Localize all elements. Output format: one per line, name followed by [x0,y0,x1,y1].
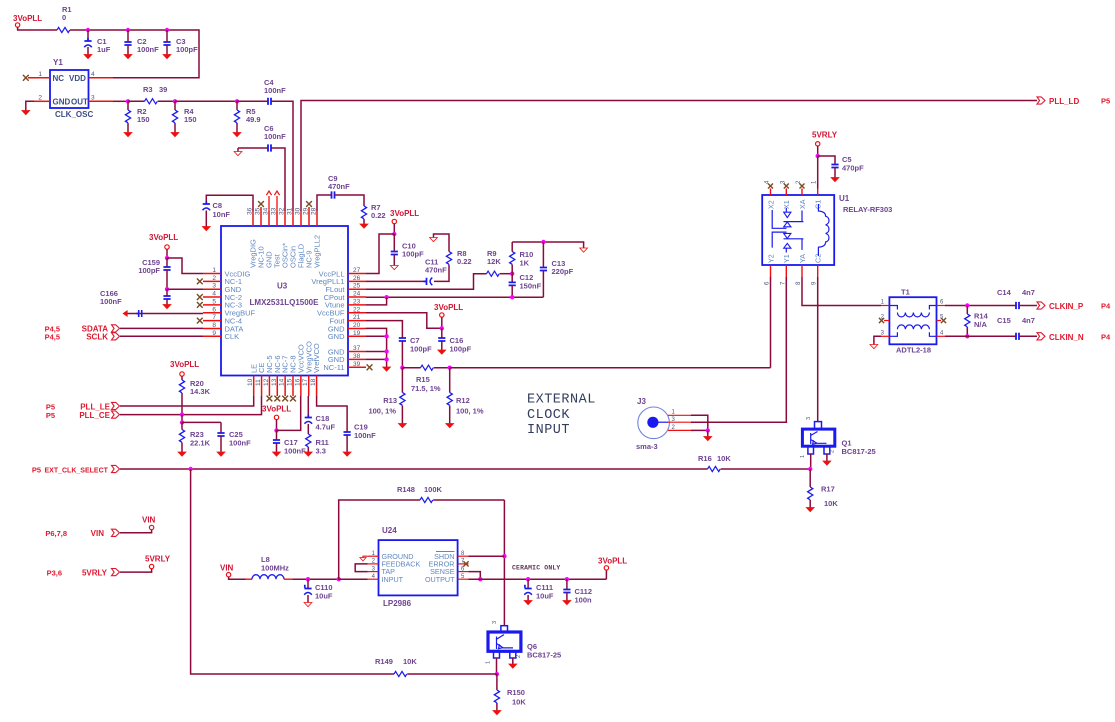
wire T1 pin4 to CLKIN_N [945,335,1016,337]
svg-text:150nF: 150nF [520,282,542,291]
svg-text:6: 6 [212,306,216,313]
svg-text:YA: YA [798,254,807,263]
capacitor C16 [441,328,443,338]
resistor R13 [401,368,403,393]
svg-text:CLK: CLK [225,332,240,341]
svg-text:X2: X2 [766,200,775,209]
resistor R8 [446,252,451,265]
wire GND pins 20 19 37 38 rail [366,328,387,367]
pin 4 INPUT of U24 [368,578,379,580]
no-connect X pin 35 [260,207,262,211]
svg-text:16: 16 [294,378,301,386]
svg-text:39: 39 [353,361,361,368]
svg-text:10uF: 10uF [536,592,554,601]
capacitor C2 [127,30,129,42]
svg-text:GND: GND [328,332,345,341]
svg-text:14.3K: 14.3K [190,387,211,396]
svg-text:5VRLY: 5VRLY [82,568,108,577]
pin 3 X1 of U1 [785,189,787,196]
svg-text:3VoPLL: 3VoPLL [390,209,419,218]
pin 37 GND of U3 [348,351,366,353]
svg-text:100, 1%: 100, 1% [456,407,484,416]
svg-text:71.5, 1%: 71.5, 1% [411,384,441,393]
no-connect X on ERROR pin 7 [463,561,468,566]
svg-text:sma-3: sma-3 [636,442,658,451]
wire matching line to relay Y2 [450,367,771,369]
svg-text:28: 28 [311,207,318,215]
svg-text:OUTPUT: OUTPUT [425,575,455,584]
svg-text:23: 23 [353,298,361,305]
svg-text:1: 1 [486,661,492,664]
wire SHDN to R148 vertical [469,555,505,557]
pin 19 GND of U3 [348,335,366,337]
svg-text:470pF: 470pF [842,164,864,173]
pin 7 ERROR of U24 [458,563,469,565]
svg-text:1: 1 [212,267,216,274]
svg-text:3.3: 3.3 [316,447,326,456]
pin 5 NC-3 of U3 [203,304,221,306]
wire J3 shield pins to ground [691,415,708,430]
pin 4 NC-2 of U3 [203,296,221,298]
pin 6 of T1 [937,305,946,307]
pin 1 of T1 [881,305,889,307]
resistor R12 [449,368,451,393]
svg-text:R17: R17 [821,485,835,494]
pin 1 of J3 [668,414,691,416]
svg-text:PLL_LD: PLL_LD [1049,97,1079,106]
pin 6 VregBUF of U3 [203,312,221,314]
wire EXT_CLK_SELECT to R16 [120,468,708,470]
svg-text:Y1: Y1 [53,58,63,67]
svg-text:1K: 1K [520,259,530,268]
wire FlagLD pin30 to PLL_LD port [301,101,1037,212]
port CLKIN_P [1037,302,1045,309]
capacitor C17 [276,430,278,440]
svg-text:10nF: 10nF [213,210,231,219]
svg-text:0.22: 0.22 [371,211,386,220]
pin 32 OSCin* of U3 [284,211,286,226]
resistor R149 [394,671,407,676]
svg-text:37: 37 [353,345,361,352]
svg-text:CLKIN_N: CLKIN_N [1049,333,1084,342]
terminal VIN [149,525,153,529]
wire SENSE to OUTPUT [469,572,481,580]
pin 39 NC-11 of U3 [348,366,366,368]
pin 11 CE of U3 [261,376,263,397]
svg-text:30: 30 [295,207,302,215]
svg-text:Y2: Y2 [766,254,775,263]
pin 16 VccVCO of U3 [300,376,302,397]
svg-text:13: 13 [271,378,278,386]
capacitor C112 [566,579,568,589]
node junction C5 [816,154,820,158]
svg-text:U24: U24 [382,526,397,535]
svg-text:Y1: Y1 [782,254,791,263]
ground arrow on U24 pin 1 [363,556,368,558]
no-connect X pins 12-15 [267,396,273,402]
svg-text:36: 36 [247,207,254,215]
pin 35 NC-10 of U3 [260,211,262,226]
svg-text:11: 11 [255,379,262,386]
svg-text:PLL_CE: PLL_CE [79,411,110,420]
svg-text:RELAY-RF303: RELAY-RF303 [843,205,892,214]
wire relay YA to T1 pin1 [802,277,881,306]
pin 31 OSCin of U3 [292,211,294,226]
svg-text:0.22: 0.22 [457,257,472,266]
node junction R148 left [337,577,341,581]
svg-text:26: 26 [353,275,361,282]
pin 7 Y1 of U1 [785,265,787,277]
capacitor C9 and resistor R7 on VregPLL2 pin 28 [317,195,332,211]
wire R10/C13 top to ground [512,242,583,248]
capacitor on VregBUF pin 6 with off-page arrow [127,313,203,315]
resistor R4 [174,101,176,110]
svg-text:10uF: 10uF [315,592,333,601]
svg-text:9: 9 [212,330,216,337]
resistor R10 [511,242,513,252]
svg-text:3: 3 [806,417,812,420]
wire R148 right to SHDN and Q6 collector [503,500,505,626]
svg-text:100nF: 100nF [354,431,376,440]
svg-text:P4,5: P4,5 [45,332,60,341]
resistor R14 [966,306,968,315]
wire C6 to OSCin* pin 32 [271,148,285,211]
resistor R9 [487,271,500,276]
wire FEEDBACK-TAP bracket [355,564,368,572]
svg-text:150: 150 [137,115,150,124]
pin 6 SENSE of U24 [458,571,469,573]
svg-text:INPUT: INPUT [382,575,404,584]
resistor R148 feedback [339,500,420,579]
svg-text:R150: R150 [507,688,525,697]
pin 2 NC-1 of U3 [203,280,221,282]
capacitor C110 [307,579,309,588]
node junction C110 [306,577,310,581]
svg-text:VIN: VIN [142,516,156,525]
capacitor C13 [542,242,544,268]
svg-text:20: 20 [353,322,361,329]
svg-text:220pF: 220pF [552,267,574,276]
svg-text:10: 10 [247,378,254,386]
wire relay Y2 to matching line [770,277,772,368]
svg-text:R149: R149 [375,657,393,666]
svg-text:100, 1%: 100, 1% [368,407,396,416]
power arrow pin 34 [268,196,270,211]
svg-text:GND: GND [53,98,71,107]
svg-text:P5: P5 [46,411,55,420]
svg-text:CERAMIC ONLY: CERAMIC ONLY [512,565,560,572]
node junction R23 [181,415,183,423]
transformer T1 ADTL2-18 [889,297,936,344]
svg-text:NC-11: NC-11 [323,363,344,372]
pin 1 VccDIG of U3 [203,273,221,275]
wire 5VRLY port to terminal [120,569,152,572]
wire OUTPUT rail [469,578,607,580]
pin 3 of T1 to ground [881,335,889,337]
pin 2 of J3 [668,429,691,431]
svg-text:100nF: 100nF [100,297,122,306]
node junction C13 top [541,240,545,244]
wire Fout pin 21 through C7 [366,321,402,338]
svg-text:1: 1 [800,455,806,458]
inductor L8 [252,575,284,579]
node junction C1 [86,28,90,32]
svg-text:100pF: 100pF [176,45,198,54]
capacitor C159 [166,258,168,267]
capacitor C10 [393,234,395,252]
wire OUT net [113,100,128,102]
pin 6 Y2 of U1 [770,265,772,277]
capacitor C6 on OSCin* with ground stub [237,148,239,152]
wire R1 to Y1 VDD rail [70,30,199,78]
svg-text:VDD: VDD [69,74,86,83]
svg-text:100pF: 100pF [450,345,472,354]
pin 3 of J3 [658,421,668,423]
svg-text:J3: J3 [637,397,646,406]
pin 9 C2 of U1 [817,265,819,277]
resistor R7 [361,206,366,219]
svg-text:3VoPLL: 3VoPLL [598,557,627,566]
pin 2 XA of U1 [801,189,803,196]
pin 38 GND of U3 [348,358,366,360]
svg-text:4n7: 4n7 [1022,316,1035,325]
capacitor C5 [818,156,835,165]
node junction C3 [165,28,169,32]
pin 8 YA of U1 [801,265,803,277]
pin 4 X2 of U1 [770,189,772,196]
svg-text:R13: R13 [383,396,397,405]
svg-text:BC817-25: BC817-25 [842,447,876,456]
wire T1 pin6 to CLKIN_P [945,305,1016,307]
svg-text:10K: 10K [512,698,526,707]
wire EXT_CLK_SELECT vertical to R149 line [191,469,394,674]
resistor R2 [127,101,129,110]
svg-text:LP2986: LP2986 [383,599,412,608]
resistor R1 [57,27,70,32]
svg-text:100nF: 100nF [229,439,251,448]
svg-text:470nF: 470nF [425,266,447,275]
capacitor C4 [268,98,271,105]
resistor R5 [236,101,238,110]
pin 8 DATA of U3 [203,327,221,329]
svg-text:R148: R148 [397,485,415,494]
wire R4 to R5 node [175,100,237,102]
net 3VoPLL at regulator output [605,570,607,579]
node junction SENSE/OUTPUT [478,577,482,581]
capacitor C18 on VregVCO pin 17 [307,396,309,417]
resistor R150 [496,674,498,690]
node junction C7/R13/R15 [400,366,404,370]
transistor Q6 BC817-25 [501,626,508,632]
T1 primary winding [889,306,936,317]
capacitor C19 on VrefVCO pin 18 [317,396,348,432]
svg-text:2: 2 [830,450,836,453]
wire to R3 [128,100,145,102]
svg-text:22.1K: 22.1K [190,439,211,448]
capacitor C3 [166,30,168,42]
svg-text:12K: 12K [487,257,501,266]
svg-text:24: 24 [353,291,361,298]
svg-text:P4: P4 [1101,302,1111,311]
svg-text:VregPLL2: VregPLL2 [313,235,322,268]
resistor R3 [145,99,158,104]
svg-text:19: 19 [353,330,361,337]
IC U3 LMX2531LQ1500E [221,226,348,376]
resistor R23 [181,422,183,429]
svg-text:U3: U3 [277,282,288,291]
svg-text:100nF: 100nF [264,132,286,141]
svg-text:10K: 10K [717,454,731,463]
wire Q6 base to R149/R150 [496,658,498,674]
wire J3 center to relay Y1 [691,421,787,423]
wire Vtune pin 23 up to CPout [366,297,387,305]
svg-text:31: 31 [287,207,294,215]
capacitor C15 [1016,333,1019,340]
pin 1 C1 of U1 [817,189,819,196]
relay contacts internal symbol upper pole [772,208,803,228]
overline on SHDN [436,551,455,553]
regulator U24 LP2986 [379,540,458,595]
svg-text:CLKIN_P: CLKIN_P [1049,302,1084,311]
node junction R20/PLL_CE [180,412,184,416]
wire relay C2 to Q1 collector [817,277,819,422]
node junction C16 [440,326,444,330]
port PLL_LD [1037,97,1045,104]
svg-text:100pF: 100pF [410,345,432,354]
wire VIN port to terminal [120,530,152,533]
wire R5 node to C4 [237,100,268,102]
svg-text:P5: P5 [32,465,41,474]
pin 15 NC-8 of U3 [292,376,294,397]
pin 2 FEEDBACK of U24 [368,563,379,565]
relay coil internal symbol [818,204,829,256]
wire R23 to C25 [182,421,221,423]
svg-text:18: 18 [310,378,317,386]
svg-text:100nF: 100nF [137,45,159,54]
pin 27 VccPLL of U3 [348,273,366,275]
svg-text:27: 27 [353,267,361,274]
capacitor C25 [220,422,222,433]
svg-text:38: 38 [353,353,361,360]
node junction pin24/Vtune [384,295,388,299]
svg-text:P3,6: P3,6 [47,568,62,577]
svg-text:5: 5 [212,298,216,305]
port CLKIN_N [1037,333,1045,340]
pin 1 GROUND of U24 [368,555,379,557]
wire R149 to Q6 base [407,673,497,675]
svg-text:470nF: 470nF [328,182,350,191]
svg-text:3VoPLL: 3VoPLL [434,303,463,312]
svg-text:VIN: VIN [220,564,234,573]
pin 30 FlagLD of U3 [300,211,302,226]
node junction R14 top [965,303,969,307]
svg-text:100nF: 100nF [284,447,306,456]
capacitor C1 [87,30,89,41]
pin 21 Fout of U3 [348,320,366,322]
pin 26 VregPLL1 of U3 [348,280,366,282]
svg-text:17: 17 [302,378,309,386]
capacitor C111 [527,579,529,588]
svg-text:14: 14 [279,378,286,386]
node junction R15/R12 [448,366,452,370]
node junction C111 [526,577,530,581]
svg-text:100pF: 100pF [402,250,424,259]
svg-text:4: 4 [212,291,216,298]
pin 14 NC-7 of U3 [284,376,286,397]
pin 17 VregVCO of U3 [308,376,310,397]
node junction SHDN [502,554,506,558]
power arrow pin 33 [276,196,278,211]
svg-text:100MHz: 100MHz [261,564,289,573]
pin 18 VrefVCO of U3 [316,376,318,397]
resistor R11 [306,434,311,447]
svg-text:R15: R15 [416,375,430,384]
pin 24 CPout of U3 [348,296,366,298]
svg-text:C14: C14 [997,288,1012,297]
svg-text:25: 25 [353,283,361,290]
svg-text:EXTERNAL: EXTERNAL [527,393,596,408]
capacitor C8 on VregDIG pin 36 [206,195,253,211]
wire L8 to C110/INPUT [284,578,293,580]
connector J3 sma-3 [638,407,670,439]
svg-text:32: 32 [279,207,286,215]
relay U1 RELAY-RF303 [762,195,834,265]
pin 5 of T1 no-connect [937,320,942,322]
svg-text:10K: 10K [403,657,417,666]
node junction pin24/C12 [510,295,514,299]
svg-text:100nF: 100nF [264,86,286,95]
node junction R9/R10/C12 [510,272,514,276]
pin 20 GND of U3 [348,327,366,329]
svg-text:P4: P4 [1101,332,1111,341]
svg-text:VrefVCO: VrefVCO [312,343,321,373]
wire R3 to R4 node [158,100,175,102]
svg-text:BC817-25: BC817-25 [527,651,561,660]
svg-text:2: 2 [38,95,42,102]
node junction R4 [173,99,177,103]
node junction EXT vertical [188,467,192,471]
node junction R14 bottom [965,334,969,338]
wire Q1 base to EXT_CLK_SELECT [810,454,812,469]
capacitor C7 [399,338,406,341]
svg-text:CLOCK: CLOCK [527,408,570,423]
svg-text:OUT: OUT [71,98,88,107]
svg-text:15: 15 [287,378,294,386]
pin 22 VccBUF of U3 [348,312,366,314]
svg-text:3: 3 [91,95,95,102]
pin 3 GND of U3 [203,288,221,290]
svg-text:P6,7,8: P6,7,8 [45,529,67,538]
wire Q1 emitter to ground [826,454,828,461]
wire CPout pin 24 net [366,296,543,298]
terminal 5VRLY [149,564,153,568]
pin 36 VregDIG of U3 [252,211,254,226]
capacitor C12 [511,274,513,283]
node junction Q6 base [495,672,499,676]
svg-text:T1: T1 [901,288,910,297]
svg-text:3: 3 [212,283,216,290]
svg-text:39: 39 [159,85,167,94]
svg-text:3VoPLL: 3VoPLL [149,233,178,242]
svg-text:49.9: 49.9 [246,115,261,124]
node junction R5 [235,99,239,103]
svg-text:XA: XA [798,199,807,209]
resistor R16 [708,466,721,471]
pin 2 of T1 no-connect [884,320,889,322]
wire R16 to Q1 base [721,468,811,470]
svg-text:X1: X1 [782,200,791,209]
no-connect X pin 29 [308,207,310,211]
